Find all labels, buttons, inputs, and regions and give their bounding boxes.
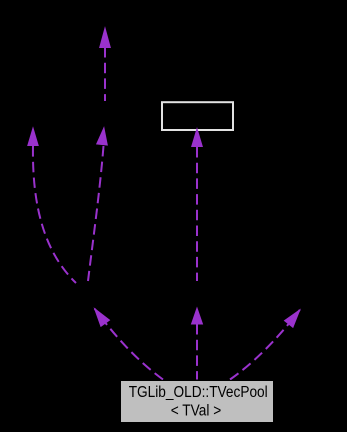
edge D: dashed curve from TVecPool box up-left to hidden mid node xyxy=(95,309,163,380)
arrowhead F xyxy=(192,129,203,147)
arrowhead G xyxy=(285,310,300,327)
edge B: dashed curve from hidden node row3 up to hidden node row2 xyxy=(88,146,104,281)
edge G: dashed curve from TVecPool box up-right to hidden mid node xyxy=(230,310,300,380)
edge A: dashed curve from hidden node row3 up-left to hidden node row2 xyxy=(33,146,76,283)
arrowhead B xyxy=(97,128,108,145)
edge F: dashed vertical from hidden mid node up to node U1 xyxy=(196,147,198,281)
svg-text:TGLib_OLD::TVecPool: TGLib_OLD::TVecPool xyxy=(129,384,268,401)
edge E: dashed vertical from TVecPool box up to hidden mid node xyxy=(196,324,198,380)
svg-text:< TVal >: < TVal > xyxy=(171,403,222,420)
arrowhead A xyxy=(28,128,38,146)
arrowhead E xyxy=(192,308,203,324)
node U1: visible light-bordered box (hidden label) xyxy=(162,102,233,130)
node TGLib_OLD::TVecPool< TVal >: current class box xyxy=(121,381,274,423)
edge C: dashed vertical from hidden node row2 up to hidden node row1 xyxy=(104,47,106,101)
arrowhead C xyxy=(100,28,111,48)
arrowhead D xyxy=(95,309,110,327)
